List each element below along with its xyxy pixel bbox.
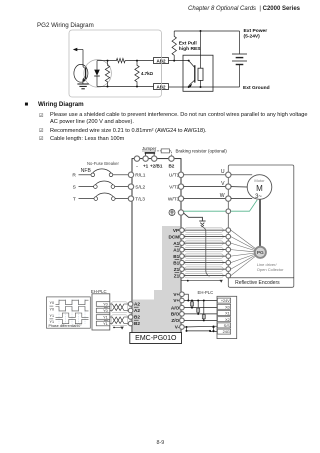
breaker switch T (94, 193, 115, 200)
svg-text:T: T (73, 196, 76, 202)
svg-text:4.7kΩ: 4.7kΩ (141, 71, 154, 76)
shield drain (113, 327, 124, 330)
wire pullup from rail (200, 31, 202, 68)
ground (drive logic) (77, 84, 88, 89)
PLC terminal +24V (217, 298, 230, 303)
terminal V/T2 (178, 184, 183, 189)
cable capsules (185, 228, 224, 278)
wire Z/O (184, 319, 217, 321)
svg-text:A1: A1 (173, 247, 179, 252)
svg-text:+1: +1 (143, 163, 149, 168)
terminal U/T1 (178, 172, 183, 177)
PLC terminal X1 (217, 311, 230, 316)
terminal S/L2 (128, 184, 133, 189)
braking resistor (optional), dashed (154, 149, 171, 156)
svg-text:Braking resistor (optional): Braking resistor (optional) (176, 149, 228, 154)
PLC output Y0 inverted (96, 308, 110, 313)
encoder terminal A1 (226, 241, 231, 246)
page number (157, 440, 165, 446)
svg-text:B1: B1 (173, 260, 179, 265)
wire bottom rail to battery (169, 86, 240, 88)
wire into motor (231, 198, 252, 200)
wire motor phase V (184, 186, 226, 188)
wire into motor (231, 174, 252, 176)
svg-text:PG: PG (257, 250, 264, 256)
svg-text:V+: V+ (173, 292, 179, 297)
svg-text:T/L3: T/L3 (135, 196, 145, 202)
node (200, 86, 202, 88)
svg-text:X1: X1 (225, 312, 230, 316)
svg-text:Motor: Motor (254, 178, 265, 183)
svg-text:X2: X2 (225, 318, 230, 322)
svg-text:Y0: Y0 (50, 307, 55, 311)
PLC output Y1 (96, 315, 110, 320)
svg-text:Y1: Y1 (50, 314, 55, 318)
shield drain wire (181, 280, 223, 283)
pull-up resistor 2 (197, 300, 200, 315)
encoder terminal B1 (226, 260, 231, 265)
terminal R/L1 (128, 172, 133, 177)
wire (115, 198, 129, 200)
motor shaft (259, 199, 261, 246)
external device box (183, 55, 213, 91)
PLC terminal X2 (217, 317, 230, 322)
svg-text:V-: V- (175, 325, 180, 330)
section title PG2 Wiring Diagram (37, 22, 94, 29)
resistor R2 (shunt) (105, 61, 109, 87)
card terminal A2 (128, 302, 133, 307)
svg-text:A/O: A/O (171, 305, 180, 310)
terminal minus (134, 156, 139, 161)
node (200, 30, 202, 32)
pull-up resistor 1 (191, 300, 194, 309)
wire battery bottom lead (239, 65, 241, 88)
svg-text:A1: A1 (173, 241, 179, 246)
svg-text:Phase differential90°: Phase differential90° (49, 324, 83, 328)
optocoupler phototransistor Q1 (74, 64, 88, 84)
wire (184, 275, 226, 277)
jumper bracket (145, 153, 155, 156)
motor machine box (228, 165, 293, 287)
output signal arrow (to drive logic) (73, 48, 83, 52)
terminal drive ground (178, 210, 183, 215)
svg-text:Ext Ground: Ext Ground (243, 85, 270, 91)
wire to PG (231, 255, 255, 269)
wire (184, 249, 226, 251)
wire bottom rail (left circuit) (97, 86, 154, 88)
PLC output Y1 inverted (96, 321, 110, 326)
wire to PG (231, 243, 255, 250)
card gray region EMC-PG01O (132, 226, 180, 333)
svg-text:3~: 3~ (255, 194, 262, 200)
svg-text:Z1: Z1 (174, 267, 180, 272)
svg-text:B/O: B/O (171, 312, 180, 317)
wire collector up (82, 50, 84, 67)
resistor R3 4.7k (135, 61, 139, 87)
wire (184, 242, 226, 244)
terminal T/L3 (128, 196, 133, 201)
svg-text:B2: B2 (134, 315, 140, 320)
svg-text:EMC-PG01O: EMC-PG01O (135, 335, 177, 342)
wire A/O (184, 307, 217, 309)
wire V- (184, 325, 217, 328)
wire (79, 186, 94, 188)
wire to PG (231, 250, 255, 252)
card terminal B2 inverted (128, 321, 133, 326)
svg-text:Y1: Y1 (103, 316, 108, 320)
terminal B2 (169, 156, 174, 161)
svg-text:A2: A2 (134, 308, 140, 313)
node (187, 300, 189, 302)
wire (184, 262, 226, 264)
svg-text:high RES: high RES (179, 46, 201, 52)
wire V+ upper join (184, 294, 188, 300)
svg-text:Y0: Y0 (103, 303, 108, 307)
wire AB2 top to external transistor (169, 60, 189, 62)
wire (127, 60, 154, 62)
label Jumper (142, 146, 157, 151)
svg-text:B1: B1 (173, 254, 179, 259)
waveform box phase differential (47, 297, 91, 328)
node emitter (188, 86, 190, 88)
wire to PG (231, 254, 255, 262)
svg-text:M: M (256, 184, 263, 193)
svg-text:Ext Power: Ext Power (244, 28, 268, 34)
svg-text:R/L1: R/L1 (135, 173, 145, 179)
ground wire stub (184, 213, 203, 221)
node (173, 60, 175, 62)
battery Ext Power 5-24V (232, 54, 247, 65)
wire motor phase U (184, 174, 226, 176)
bullet Wiring Diagram (25, 101, 29, 108)
resistor R4 (in external box) (198, 68, 203, 80)
encoder terminal Z1 (226, 273, 231, 278)
breaker switch S (94, 181, 115, 188)
node collector (188, 60, 190, 62)
terminal +2/B1 (152, 156, 157, 161)
terminal AB2 (top) (154, 58, 169, 64)
node (107, 86, 109, 88)
svg-text:Y0: Y0 (103, 309, 108, 313)
svg-text:U: U (221, 169, 225, 175)
wire V- loop to 24G (187, 327, 218, 332)
pull-up resistor 3 (202, 300, 205, 322)
terminal +1 (143, 156, 148, 161)
node (107, 60, 109, 62)
svg-text:V: V (221, 181, 225, 187)
encoder terminal DCM (226, 234, 231, 239)
twisted pair B2 (110, 317, 128, 324)
resistor Ext Pull high RES (172, 31, 176, 61)
svg-text:Reflective Encoders: Reflective Encoders (235, 280, 280, 286)
wire (113, 174, 130, 176)
wire B/O (184, 313, 217, 315)
svg-text:DCM: DCM (169, 234, 180, 239)
resistor R1 (series, horizontal) (115, 58, 127, 62)
earth ground symbol (199, 221, 205, 227)
svg-text:VP: VP (173, 228, 179, 233)
svg-text:B2: B2 (134, 321, 140, 326)
optocoupler LED-side circle (84, 60, 112, 88)
svg-text:B2: B2 (168, 163, 174, 168)
svg-text:No-Fuse Breaker: No-Fuse Breaker (87, 161, 119, 166)
wire (184, 255, 226, 257)
motor terminal U (226, 172, 231, 177)
svg-text:Open Collector: Open Collector (257, 267, 284, 272)
motor terminal W (226, 196, 231, 201)
wire V+ rail (184, 300, 217, 302)
svg-text:A2: A2 (134, 302, 140, 307)
wire top rail (left circuit) (97, 60, 115, 62)
wire battery top lead (239, 31, 241, 54)
PLC terminal S/S (217, 323, 230, 328)
PLC output Y0 (96, 302, 110, 307)
svg-text:Y1: Y1 (103, 322, 108, 326)
wire (79, 174, 92, 176)
green wire continued (231, 200, 258, 211)
card name box EMC-PG01O (130, 333, 182, 344)
wire (184, 236, 226, 238)
motor M 3~ (247, 175, 272, 201)
wire (115, 186, 130, 188)
transistor Q2 (external open-collector) (189, 61, 195, 88)
twisted pair capsule A2 (111, 302, 127, 313)
page header (188, 6, 300, 12)
svg-text:EH-PLC: EH-PLC (198, 290, 214, 295)
svg-text:+2/B1: +2/B1 (150, 163, 163, 168)
svg-text:EH-PLC: EH-PLC (91, 289, 107, 294)
phase marker grid (59, 299, 85, 325)
divider reflective encoders strip (228, 277, 293, 279)
motor terminal V (226, 184, 231, 189)
encoder terminal VP (226, 228, 231, 233)
svg-text:Z/O: Z/O (171, 318, 179, 323)
shield curl (203, 227, 209, 276)
svg-text:24G: 24G (223, 330, 230, 334)
svg-text:Z1: Z1 (174, 273, 180, 278)
twisted pair A2 (110, 304, 128, 311)
encoder PG (255, 247, 266, 258)
svg-text:+24V: +24V (221, 299, 230, 303)
wire to PG (231, 230, 256, 249)
svg-text:Jumper: Jumper (142, 146, 157, 151)
PLC block (right) (217, 296, 237, 338)
wire (184, 229, 226, 231)
terminal W/T3 (178, 196, 183, 201)
node (186, 330, 188, 332)
svg-text:V+: V+ (173, 298, 179, 303)
svg-text:S/S: S/S (224, 324, 231, 328)
wire to PG (231, 256, 256, 276)
drive-side box edge over AB2 (161, 56, 163, 91)
svg-text:W: W (220, 193, 225, 199)
terminal AB2 (bottom) (154, 84, 169, 90)
AC drive block (132, 159, 181, 333)
wire (184, 268, 226, 270)
svg-text:S: S (73, 184, 76, 190)
svg-text:Y0: Y0 (50, 301, 55, 305)
encoder terminal B1 (226, 254, 231, 259)
machine frame ground terminal (226, 209, 231, 214)
svg-text:(5-24V): (5-24V) (244, 33, 261, 39)
PLC block (left) (92, 294, 110, 330)
wire to PG (231, 253, 255, 256)
wire motor phase W (184, 198, 226, 200)
node (136, 60, 138, 62)
node (209, 330, 211, 332)
svg-text:Ext Pull: Ext Pull (179, 41, 198, 47)
encoder terminal Z1 (226, 267, 231, 272)
svg-text:NFB: NFB (81, 168, 92, 174)
LED D1 (optocoupler input) (94, 61, 100, 87)
wire into motor (231, 186, 247, 188)
encoder terminal A1 (226, 247, 231, 252)
ground symbol at drive (169, 210, 175, 216)
card terminal A2 inverted (128, 308, 133, 313)
node (136, 86, 138, 88)
node V- (186, 326, 188, 328)
twisted pair capsule B2 (111, 315, 127, 326)
PLC terminal X0 (217, 304, 230, 309)
wire (79, 198, 95, 200)
card terminal B2 (128, 315, 133, 320)
svg-text:R: R (72, 173, 76, 179)
wire top rail (right circuit) (174, 30, 239, 32)
S/S to 24G link arrows (212, 326, 214, 333)
green ground wire to motor (184, 210, 226, 212)
drive-side enclosure box (gray rounded) (69, 30, 162, 97)
PLC terminal 24G (217, 329, 230, 334)
breaker switch R (91, 169, 113, 177)
wire (200, 80, 202, 87)
svg-text:X0: X0 (225, 305, 230, 309)
node (213, 326, 215, 328)
svg-text:S/L2: S/L2 (135, 184, 145, 190)
wire to PG (231, 237, 255, 250)
